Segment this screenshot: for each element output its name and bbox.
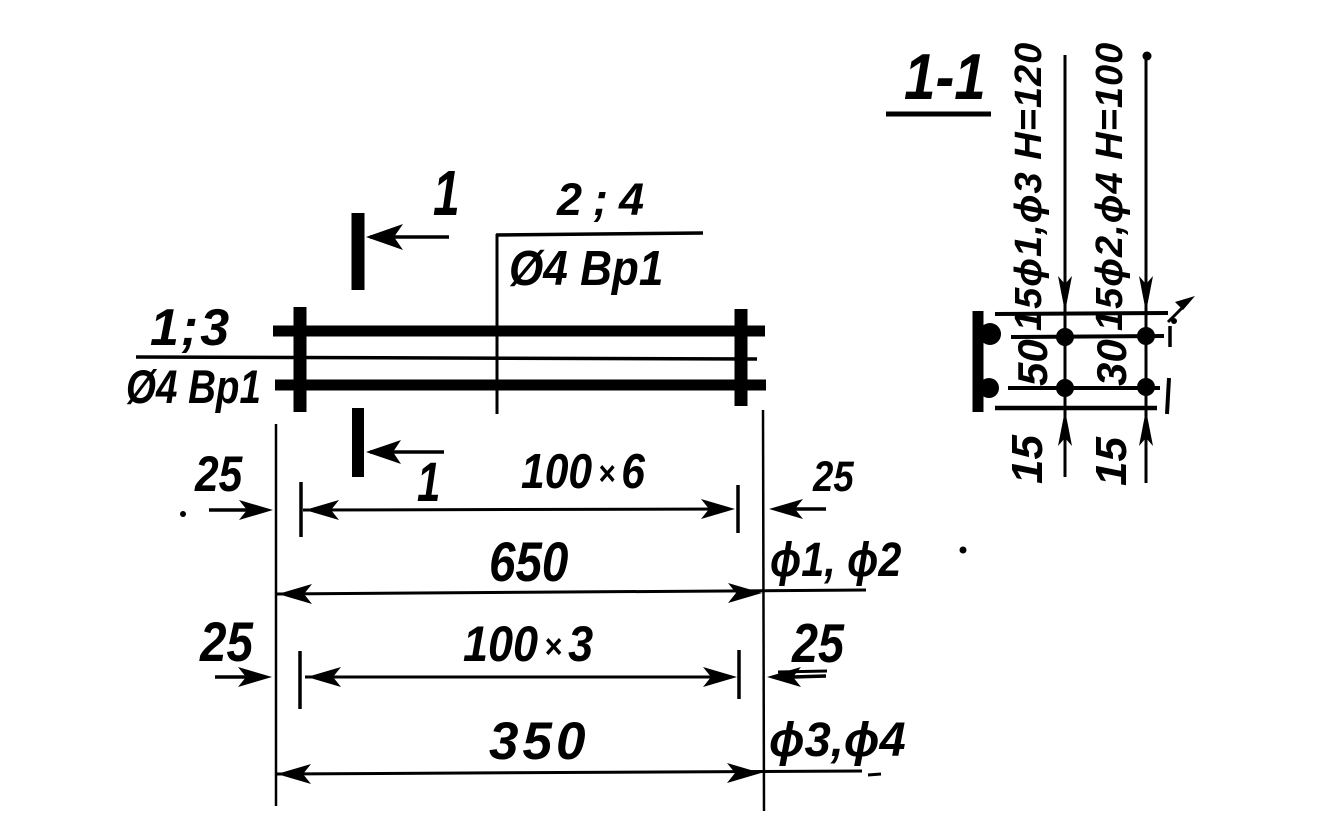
svg-text:Ø4 Вр1: Ø4 Вр1 (126, 361, 261, 413)
svg-text:25: 25 (199, 611, 254, 673)
svg-text:1-1: 1-1 (904, 40, 986, 113)
vertical dim line B with down+up arrowheads (1145, 52, 1148, 483)
row2 dimension line with leader to Ф1,Ф2 (277, 590, 866, 594)
stray dot (180, 511, 186, 517)
right vertical dash near lines 3-4 (1167, 378, 1169, 414)
svg-text:15ϕ1,ϕ3 Н=120: 15ϕ1,ϕ3 Н=120 (1008, 42, 1050, 331)
section cut mark 1 (upper) arrow (370, 235, 449, 239)
svg-text:ϕ3,ϕ4: ϕ3,ϕ4 (769, 714, 906, 768)
left cross bar (294, 307, 307, 412)
section line 2 (1011, 336, 1164, 337)
section line 4 (bottom) (995, 406, 1157, 411)
svg-text:1: 1 (417, 451, 440, 513)
section line 1 (top) (995, 313, 1168, 314)
svg-text:1;3: 1;3 (150, 299, 231, 357)
svg-text:50: 50 (1009, 339, 1056, 386)
wire junction dots (1056, 328, 1074, 346)
row1 left outer arrow (209, 508, 250, 512)
row4 dimension line with leader to Ф3,Ф4 (276, 771, 862, 774)
left extension line (275, 424, 278, 806)
svg-text:15: 15 (1003, 435, 1052, 484)
svg-text:ϕ1, ϕ2: ϕ1, ϕ2 (770, 533, 901, 587)
thin vertical leader of label 2;4 (496, 234, 499, 414)
right end tick of section line 2 (1168, 326, 1172, 347)
row4 leader end dash (868, 774, 881, 775)
row3 inner dimension line with outward arrows (305, 676, 732, 679)
svg-text:650: 650 (489, 531, 568, 593)
row3 left tick (298, 651, 302, 709)
section cut mark 1 (upper) bar (352, 213, 365, 290)
section rebar dot (lower bump) (979, 378, 999, 398)
svg-text:350: 350 (489, 712, 589, 771)
svg-text:25: 25 (791, 612, 844, 673)
svg-text:15ϕ2,ϕ4 Н=100: 15ϕ2,ϕ4 Н=100 (1089, 42, 1131, 331)
stray speck right of Ф1,Ф2 (960, 547, 967, 554)
top longitudinal bar (273, 326, 765, 337)
section edge bar (left) (973, 311, 984, 412)
svg-text:25: 25 (194, 446, 243, 502)
right extension line (763, 410, 764, 811)
svg-text:2;4: 2;4 (556, 174, 655, 225)
svg-text:Ø4 Вр1: Ø4 Вр1 (509, 241, 663, 296)
right cross bar (735, 309, 748, 406)
row3 right extra stub (778, 671, 827, 672)
middle thin wire (also leader line of label 1;3) (136, 357, 757, 359)
bottom longitudinal bar (275, 380, 766, 391)
row1 right outer arrow (795, 507, 826, 511)
leader horizontal of label 2;4 (496, 233, 703, 235)
row1 left tick (299, 482, 303, 537)
row1 inner dimension line with outward arrows (303, 509, 730, 510)
section line 3 (1008, 386, 1160, 390)
svg-text:30: 30 (1088, 339, 1135, 386)
svg-text:100 × 6: 100 × 6 (521, 443, 645, 498)
svg-text:25: 25 (812, 453, 854, 500)
svg-text:100 × 3: 100 × 3 (463, 617, 593, 673)
section title underline (886, 112, 991, 117)
row1 right tick (736, 485, 740, 533)
svg-text:15: 15 (1087, 437, 1136, 486)
section rebar dot (upper bump) (979, 323, 1001, 345)
section cut mark 1 (lower) arrow (370, 450, 444, 454)
row3 right tick (737, 650, 741, 699)
section cut mark 1 (lower) bar (352, 408, 364, 477)
row3 left outer arrow (215, 675, 248, 679)
svg-text:1: 1 (433, 157, 460, 228)
diagonal arrow at top right of section (1168, 302, 1188, 322)
row3 right outer arrow (793, 676, 826, 677)
vertical dim line A with down+up arrowheads (1064, 55, 1067, 477)
